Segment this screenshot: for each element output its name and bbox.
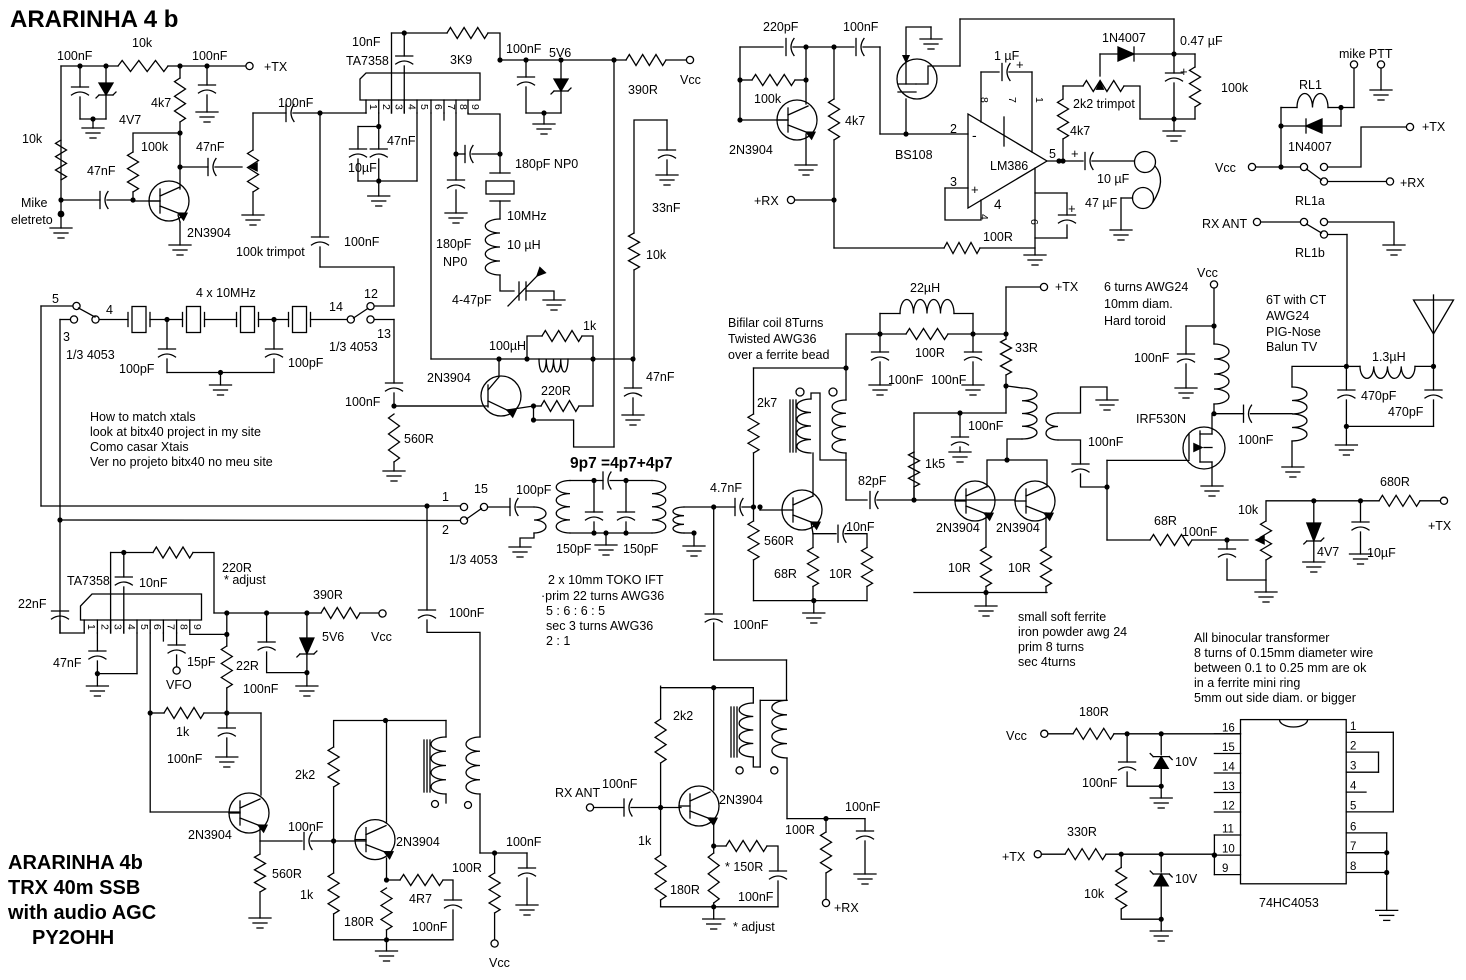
svg-text:100nF: 100nF [1182, 525, 1218, 539]
svg-text:* adjust: * adjust [733, 920, 775, 934]
svg-text:+: + [971, 182, 979, 197]
svg-text:47nF: 47nF [196, 140, 225, 154]
svg-text:PIG-Nose: PIG-Nose [1266, 325, 1321, 339]
svg-text:150pF: 150pF [623, 542, 659, 556]
svg-text:2 : 1: 2 : 1 [546, 634, 570, 648]
svg-text:-: - [972, 127, 977, 143]
svg-text:8: 8 [457, 104, 469, 110]
svg-text:15: 15 [1222, 742, 1235, 754]
svg-text:4: 4 [405, 104, 417, 110]
svg-text:100nF: 100nF [506, 42, 542, 56]
svg-text:4k7: 4k7 [845, 114, 865, 128]
svg-text:Ver no projeto bitx40 no meu s: Ver no projeto bitx40 no meu site [90, 455, 273, 469]
svg-text:6: 6 [151, 624, 163, 630]
svg-text:68R: 68R [774, 567, 797, 581]
svg-text:10nF: 10nF [139, 576, 168, 590]
svg-text:100nF: 100nF [278, 96, 314, 110]
svg-text:1: 1 [367, 104, 379, 110]
svg-text:100nF: 100nF [843, 20, 879, 34]
svg-text:10µF: 10µF [348, 161, 377, 175]
svg-text:10V: 10V [1175, 872, 1198, 886]
svg-text:+: + [1071, 146, 1079, 161]
svg-text:22R: 22R [236, 659, 259, 673]
svg-text:5mm out side diam. or bigger: 5mm out side diam. or bigger [1194, 691, 1356, 705]
svg-text:4k7: 4k7 [1070, 124, 1090, 138]
svg-text:1/3 4053: 1/3 4053 [449, 553, 498, 567]
svg-text:3K9: 3K9 [450, 53, 472, 67]
svg-text:sec 4turns: sec 4turns [1018, 655, 1076, 669]
svg-text:1/3 4053: 1/3 4053 [66, 348, 115, 362]
svg-text:100k trimpot: 100k trimpot [236, 245, 305, 259]
svg-text:13: 13 [1222, 781, 1235, 793]
svg-text:Vcc: Vcc [1197, 266, 1218, 280]
svg-text:Vcc: Vcc [1215, 161, 1236, 175]
svg-text:Vcc: Vcc [680, 73, 701, 87]
svg-text:Twisted AWG36: Twisted AWG36 [728, 332, 817, 346]
svg-text:2N3904: 2N3904 [188, 828, 232, 842]
svg-text:NP0: NP0 [443, 255, 467, 269]
svg-text:2k2 trimpot: 2k2 trimpot [1073, 97, 1135, 111]
svg-text:2: 2 [442, 523, 449, 537]
svg-text:10MHz: 10MHz [507, 209, 547, 223]
svg-text:100nF: 100nF [845, 800, 881, 814]
svg-text:2: 2 [98, 624, 110, 630]
svg-text:100pF: 100pF [516, 483, 552, 497]
svg-text:3: 3 [63, 330, 70, 344]
svg-text:2: 2 [380, 104, 392, 110]
svg-text:BS108: BS108 [895, 148, 933, 162]
svg-text:100nF: 100nF [738, 890, 774, 904]
svg-text:15: 15 [474, 482, 488, 496]
svg-text:180R: 180R [670, 883, 700, 897]
svg-text:5: 5 [418, 104, 430, 110]
svg-text:with audio AGC: with audio AGC [7, 902, 156, 924]
svg-text:10 µH: 10 µH [507, 238, 541, 252]
svg-text:2N3904: 2N3904 [187, 226, 231, 240]
svg-text:10k: 10k [1238, 503, 1259, 517]
svg-text:100nF: 100nF [412, 920, 448, 934]
svg-text:sec 3 turns AWG36: sec 3 turns AWG36 [546, 619, 653, 633]
svg-text:680R: 680R [1380, 475, 1410, 489]
svg-text:4.7nF: 4.7nF [710, 481, 742, 495]
svg-text:16: 16 [1222, 722, 1235, 734]
svg-text:82pF: 82pF [858, 474, 887, 488]
svg-text:10R: 10R [948, 561, 971, 575]
svg-text:4V7: 4V7 [1317, 545, 1339, 559]
svg-text:+: + [1068, 201, 1076, 216]
svg-text:Bifilar coil 8Turns: Bifilar coil 8Turns [728, 316, 823, 330]
svg-text:2k7: 2k7 [757, 396, 777, 410]
svg-text:Hard toroid: Hard toroid [1104, 314, 1166, 328]
svg-text:180pF: 180pF [436, 237, 472, 251]
svg-text:AWG24: AWG24 [1266, 309, 1309, 323]
svg-text:4: 4 [125, 624, 137, 630]
svg-text:LM386: LM386 [990, 159, 1028, 173]
svg-text:TA7358: TA7358 [346, 54, 389, 68]
svg-text:9p7 =4p7+4p7: 9p7 =4p7+4p7 [570, 455, 673, 472]
svg-text:RL1a: RL1a [1295, 194, 1325, 208]
svg-text:Vcc: Vcc [1006, 729, 1027, 743]
svg-text:2N3904: 2N3904 [729, 143, 773, 157]
svg-text:7: 7 [1350, 841, 1356, 853]
svg-text:100nF: 100nF [733, 618, 769, 632]
svg-text:PY2OHH: PY2OHH [32, 927, 114, 949]
svg-text:100nF: 100nF [968, 419, 1004, 433]
svg-text:47nF: 47nF [646, 370, 675, 384]
svg-text:2N3904: 2N3904 [996, 521, 1040, 535]
svg-text:+TX: +TX [1055, 280, 1079, 294]
svg-text:47 µF: 47 µF [1085, 196, 1118, 210]
svg-text:5V6: 5V6 [322, 630, 344, 644]
svg-text:4: 4 [1350, 781, 1357, 793]
svg-text:2N3904: 2N3904 [396, 835, 440, 849]
svg-text:5: 5 [1049, 147, 1056, 161]
svg-text:4R7: 4R7 [409, 892, 432, 906]
svg-text:5 : 6 : 6 : 5: 5 : 6 : 6 : 5 [546, 604, 605, 618]
svg-text:2N3904: 2N3904 [936, 521, 980, 535]
svg-text:4V7: 4V7 [119, 113, 141, 127]
svg-text:1: 1 [1350, 721, 1356, 733]
svg-text:47nF: 47nF [387, 134, 416, 148]
svg-text:6: 6 [1028, 219, 1040, 225]
svg-text:100k: 100k [754, 92, 782, 106]
svg-text:look at bitx40 project in my s: look at bitx40 project in my site [90, 425, 261, 439]
svg-text:8 turns of 0.15mm diameter wir: 8 turns of 0.15mm diameter wire [1194, 646, 1373, 660]
svg-text:1: 1 [85, 624, 97, 630]
svg-text:100nF: 100nF [602, 777, 638, 791]
svg-text:14: 14 [329, 300, 343, 314]
svg-text:7: 7 [445, 104, 457, 110]
svg-text:ARARINHA 4b: ARARINHA 4b [8, 852, 143, 874]
svg-text:2N3904: 2N3904 [427, 371, 471, 385]
svg-text:1: 1 [442, 490, 449, 504]
svg-text:4: 4 [994, 197, 1002, 212]
svg-text:47nF: 47nF [87, 164, 116, 178]
svg-text:100pF: 100pF [288, 356, 324, 370]
svg-text:100R: 100R [452, 861, 482, 875]
svg-text:in a ferrite mini ring: in a ferrite mini ring [1194, 676, 1300, 690]
svg-text:10: 10 [1222, 844, 1235, 856]
svg-text:1k: 1k [638, 834, 652, 848]
svg-text:+: + [1180, 64, 1188, 79]
svg-text:3: 3 [393, 104, 405, 110]
svg-text:10R: 10R [1008, 561, 1031, 575]
svg-text:180R: 180R [344, 915, 374, 929]
svg-text:100k: 100k [141, 140, 169, 154]
svg-text:10 µF: 10 µF [1097, 172, 1130, 186]
svg-text:* 150R: * 150R [725, 860, 763, 874]
svg-text:100k: 100k [1221, 81, 1249, 95]
svg-text:+TX: +TX [1002, 850, 1026, 864]
svg-text:470pF: 470pF [1361, 389, 1397, 403]
svg-text:9: 9 [191, 624, 203, 630]
svg-text:over a ferrite bead: over a ferrite bead [728, 348, 829, 362]
svg-text:100nF: 100nF [243, 682, 279, 696]
svg-text:RL1b: RL1b [1295, 246, 1325, 260]
svg-text:2: 2 [1350, 741, 1356, 753]
svg-text:100nF: 100nF [506, 835, 542, 849]
svg-text:7: 7 [164, 624, 176, 630]
svg-text:470pF: 470pF [1388, 405, 1424, 419]
svg-text:1k: 1k [583, 319, 597, 333]
svg-text:IRF530N: IRF530N [1136, 412, 1186, 426]
svg-text:8: 8 [978, 97, 990, 103]
svg-text:+RX: +RX [754, 194, 779, 208]
svg-text:8: 8 [178, 624, 190, 630]
svg-text:1k: 1k [176, 725, 190, 739]
svg-text:7: 7 [1006, 97, 1018, 103]
svg-text:eletreto: eletreto [11, 213, 53, 227]
svg-text:Como casar Xtais: Como casar Xtais [90, 440, 189, 454]
svg-text:4k7: 4k7 [151, 96, 171, 110]
svg-text:How to match xtals: How to match xtals [90, 410, 196, 424]
svg-text:10k: 10k [646, 248, 667, 262]
svg-text:+TX: +TX [264, 60, 288, 74]
svg-text:6T with CT: 6T with CT [1266, 293, 1327, 307]
svg-text:1/3 4053: 1/3 4053 [329, 340, 378, 354]
svg-text:10k: 10k [22, 132, 43, 146]
svg-text:small soft ferrite: small soft ferrite [1018, 610, 1106, 624]
svg-text:15pF: 15pF [187, 655, 216, 669]
svg-text:1k5: 1k5 [925, 457, 945, 471]
svg-text:220pF: 220pF [763, 20, 799, 34]
svg-text:22µH: 22µH [910, 281, 940, 295]
svg-text:10k: 10k [1084, 887, 1105, 901]
svg-text:100R: 100R [785, 823, 815, 837]
svg-text:+TX: +TX [1428, 519, 1452, 533]
svg-text:RX ANT: RX ANT [1202, 217, 1248, 231]
svg-text:8: 8 [1350, 861, 1356, 873]
svg-text:2 x 10mm TOKO IFT: 2 x 10mm TOKO IFT [548, 573, 664, 587]
svg-text:+RX: +RX [834, 901, 859, 915]
svg-text:TRX 40m SSB: TRX 40m SSB [8, 877, 140, 899]
svg-text:1N4007: 1N4007 [1102, 31, 1146, 45]
svg-text:68R: 68R [1154, 514, 1177, 528]
svg-text:0.47 µF: 0.47 µF [1180, 34, 1223, 48]
svg-text:10k: 10k [132, 36, 153, 50]
svg-text:100nF: 100nF [167, 752, 203, 766]
svg-text:mike PTT: mike PTT [1339, 47, 1393, 61]
svg-text:100nF: 100nF [288, 820, 324, 834]
svg-text:100R: 100R [915, 346, 945, 360]
svg-text:12: 12 [364, 287, 378, 301]
svg-text:390R: 390R [313, 588, 343, 602]
svg-text:All binocular transformer: All binocular transformer [1194, 631, 1329, 645]
svg-text:150pF: 150pF [556, 542, 592, 556]
svg-text:2N3904: 2N3904 [719, 793, 763, 807]
svg-text:100nF: 100nF [192, 49, 228, 63]
svg-text:2: 2 [950, 122, 957, 136]
svg-text:22nF: 22nF [18, 597, 47, 611]
svg-text:3: 3 [112, 624, 124, 630]
svg-text:+TX: +TX [1422, 120, 1446, 134]
svg-text:100nF: 100nF [344, 235, 380, 249]
svg-text:3: 3 [1350, 761, 1356, 773]
svg-text:1 µF: 1 µF [994, 49, 1020, 63]
svg-text:1.3µH: 1.3µH [1372, 350, 1406, 364]
svg-text:220R: 220R [541, 384, 571, 398]
svg-text:100µH: 100µH [489, 339, 526, 353]
svg-text:2k2: 2k2 [673, 709, 693, 723]
svg-text:3: 3 [950, 175, 957, 189]
svg-text:6: 6 [432, 104, 444, 110]
svg-text:13: 13 [377, 327, 391, 341]
svg-text:prim 8 turns: prim 8 turns [1018, 640, 1084, 654]
svg-text:33R: 33R [1015, 341, 1038, 355]
svg-text:330R: 330R [1067, 825, 1097, 839]
svg-text:1: 1 [1033, 97, 1045, 103]
svg-text:4-47pF: 4-47pF [452, 293, 492, 307]
svg-text:6 turns AWG24: 6 turns AWG24 [1104, 280, 1188, 294]
svg-text:* adjust: * adjust [224, 573, 266, 587]
svg-text:RL1: RL1 [1299, 78, 1322, 92]
svg-text:100nF: 100nF [1088, 435, 1124, 449]
svg-text:560R: 560R [404, 432, 434, 446]
svg-text:5: 5 [52, 292, 59, 306]
svg-text:10V: 10V [1175, 755, 1198, 769]
svg-text:10nF: 10nF [352, 35, 381, 49]
svg-text:12: 12 [1222, 801, 1235, 813]
svg-text:100nF: 100nF [345, 395, 381, 409]
svg-text:4 x 10MHz: 4 x 10MHz [196, 286, 256, 300]
svg-text:TA7358: TA7358 [67, 574, 110, 588]
svg-text:100nF: 100nF [888, 373, 924, 387]
svg-text:1k: 1k [300, 888, 314, 902]
svg-text:100nF: 100nF [931, 373, 967, 387]
svg-text:180R: 180R [1079, 705, 1109, 719]
svg-text:Vcc: Vcc [371, 630, 392, 644]
svg-text:2k2: 2k2 [295, 768, 315, 782]
svg-text:9: 9 [1222, 863, 1228, 875]
svg-text:180pF NP0: 180pF NP0 [515, 157, 578, 171]
svg-text:Balun TV: Balun TV [1266, 340, 1318, 354]
svg-text:ARARINHA 4 b: ARARINHA 4 b [10, 6, 178, 33]
svg-text:+RX: +RX [1400, 176, 1425, 190]
svg-text:10nF: 10nF [846, 520, 875, 534]
svg-text:·prim 22 turns AWG36: ·prim 22 turns AWG36 [541, 589, 664, 603]
svg-text:10mm diam.: 10mm diam. [1104, 297, 1173, 311]
svg-text:4: 4 [106, 303, 113, 317]
svg-text:390R: 390R [628, 83, 658, 97]
svg-text:1N4007: 1N4007 [1288, 140, 1332, 154]
svg-text:10R: 10R [829, 567, 852, 581]
svg-text:6: 6 [1350, 821, 1356, 833]
svg-text:100pF: 100pF [119, 362, 155, 376]
svg-text:Vcc: Vcc [489, 956, 510, 970]
svg-text:4: 4 [978, 214, 990, 220]
svg-text:5: 5 [1350, 800, 1356, 812]
svg-text:560R: 560R [272, 867, 302, 881]
svg-text:100nF: 100nF [1082, 776, 1118, 790]
svg-text:74HC4053: 74HC4053 [1259, 896, 1319, 910]
svg-text:5: 5 [138, 624, 150, 630]
svg-text:iron powder awg 24: iron powder awg 24 [1018, 625, 1127, 639]
svg-text:14: 14 [1222, 762, 1235, 774]
svg-text:11: 11 [1222, 824, 1234, 836]
svg-text:Mike: Mike [21, 196, 47, 210]
svg-text:33nF: 33nF [652, 201, 681, 215]
svg-text:100nF: 100nF [1134, 351, 1170, 365]
svg-text:100nF: 100nF [1238, 433, 1274, 447]
svg-text:10µF: 10µF [1367, 546, 1396, 560]
svg-text:between 0.1 to 0.25 mm are ok: between 0.1 to 0.25 mm are ok [1194, 661, 1367, 675]
svg-text:100nF: 100nF [449, 606, 485, 620]
svg-text:9: 9 [469, 104, 481, 110]
svg-text:100nF: 100nF [57, 49, 93, 63]
svg-text:RX ANT: RX ANT [555, 786, 601, 800]
svg-text:VFO: VFO [166, 678, 192, 692]
svg-text:560R: 560R [764, 534, 794, 548]
svg-text:100R: 100R [983, 230, 1013, 244]
svg-text:47nF: 47nF [53, 656, 82, 670]
